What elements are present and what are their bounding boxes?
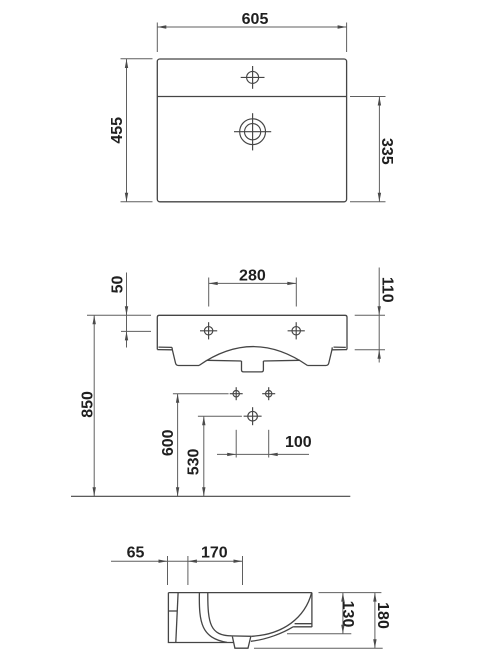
dimension 65 / 170 [111, 556, 243, 585]
svg-text:605: 605 [242, 11, 269, 28]
dimension 530 [198, 416, 242, 496]
dimension 280 [209, 278, 297, 307]
svg-text:280: 280 [239, 268, 266, 285]
svg-text:130: 130 [339, 601, 356, 628]
drain hole (top view) [234, 113, 271, 150]
svg-text:65: 65 [127, 545, 145, 562]
side view outer front curve [251, 627, 293, 642]
svg-text:335: 335 [378, 138, 395, 165]
dimension 850 [93, 315, 95, 496]
dimension 110 [355, 268, 385, 363]
bowl underside arc [199, 347, 308, 366]
wall drain hole [244, 407, 262, 425]
floor line [71, 495, 350, 497]
dimension 600 [173, 394, 229, 497]
dimension 100 [217, 430, 309, 458]
left fixing hole (front view) [200, 322, 217, 339]
left mounting tab (front view) [157, 347, 172, 350]
left underside step [172, 350, 199, 366]
svg-text:850: 850 [79, 391, 96, 418]
top view basin outline [157, 59, 346, 202]
svg-text:180: 180 [374, 602, 391, 629]
side view inner back curve [208, 593, 231, 636]
right mounting tab (front view) [332, 347, 347, 350]
svg-text:50: 50 [110, 276, 127, 294]
right underside step [308, 350, 332, 366]
drain boss [242, 361, 264, 372]
dimension 130 [287, 593, 381, 634]
right fixing hole (front view) [288, 322, 305, 339]
svg-text:455: 455 [109, 117, 126, 144]
underside chord lines [207, 359, 300, 362]
side view inner front curve [252, 593, 312, 637]
wall fixing hole left [230, 387, 243, 400]
dimension 455 [121, 59, 153, 202]
svg-text:530: 530 [186, 448, 203, 475]
side view outer back curve [199, 593, 227, 643]
svg-text:110: 110 [379, 277, 396, 303]
dimension 335 [350, 97, 386, 202]
side view front edge [311, 593, 313, 628]
svg-text:600: 600 [160, 429, 177, 456]
top view deck ledge line [157, 96, 346, 98]
front view basin outline [157, 315, 347, 372]
wall fixing hole right [262, 387, 275, 400]
side view drain tab [231, 636, 252, 648]
side view front lip [293, 624, 312, 627]
side view back flange [168, 593, 234, 643]
faucet hole (top view) [241, 66, 265, 89]
side view rim [168, 593, 312, 649]
svg-text:100: 100 [285, 434, 312, 451]
svg-text:170: 170 [201, 545, 228, 562]
dimension 180 [254, 593, 383, 649]
dimension 50 [87, 273, 151, 348]
dimension 605 [157, 23, 346, 53]
